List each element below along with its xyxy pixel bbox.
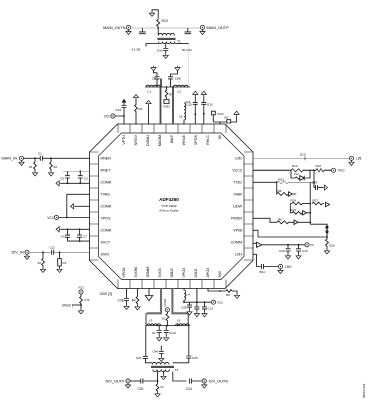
svg-text:RNET: RNET xyxy=(101,168,112,172)
capacitor C38 xyxy=(124,289,129,305)
buffer arrow after R8 xyxy=(288,192,296,196)
svg-text:51: 51 xyxy=(161,385,165,389)
inductor L4 xyxy=(184,289,186,303)
svg-text:VDD [3]: VDD [3] xyxy=(100,292,113,296)
svg-text:URUC [: URUC [ xyxy=(62,304,73,308)
inductor L1 xyxy=(146,85,160,87)
resistor R12 xyxy=(291,169,303,172)
wire DIV_OUTP to C30 xyxy=(130,380,140,382)
ground under C12 xyxy=(194,312,199,317)
ground under C6 xyxy=(159,357,164,362)
connector DIV_OUTN xyxy=(202,379,206,383)
svg-text:R8: R8 xyxy=(278,189,282,193)
ground under C45 xyxy=(296,254,301,259)
capacitor C29 xyxy=(286,245,291,254)
wire pin COMM with buffer xyxy=(253,243,305,245)
connector TP1 xyxy=(305,243,309,247)
svg-text:VCC: VCC xyxy=(47,216,54,220)
capacitor C25 series xyxy=(173,356,192,363)
chip U1 bottom pad row xyxy=(118,280,226,289)
capacitor C30 series xyxy=(141,379,158,384)
wire RF trace A xyxy=(160,87,162,124)
capacitor C5 xyxy=(65,171,70,183)
svg-text:VDD: VDD xyxy=(163,105,170,109)
wire DIV_IN to pin9 xyxy=(29,251,89,253)
connector MAIN_IN xyxy=(19,156,23,160)
inductor L8 xyxy=(184,103,186,124)
svg-text:C25: C25 xyxy=(192,356,198,360)
svg-text:LIDW: LIDW xyxy=(233,204,243,208)
wire T1 secondary right stub xyxy=(175,43,189,45)
wire pin4 to loop filter xyxy=(67,194,90,217)
resistor R7 center tap xyxy=(165,87,168,99)
wire VCC to pad1 xyxy=(115,116,124,124)
svg-text:R6: R6 xyxy=(278,217,282,221)
chip U1 outer outline xyxy=(90,124,254,289)
capacitor C14 series xyxy=(261,264,278,269)
resistor R2b shunt xyxy=(50,158,53,171)
svg-text:50 C42: 50 C42 xyxy=(182,48,192,52)
svg-text:MAIN_OUTN: MAIN_OUTN xyxy=(103,26,126,30)
ground under C10 xyxy=(164,336,169,341)
svg-text:COMR: COMR xyxy=(101,204,112,208)
svg-text:FL2: FL2 xyxy=(294,172,299,176)
VDD arrow pad3 xyxy=(146,101,151,106)
inductor L2 xyxy=(174,85,188,87)
connector MAIN_OUTP xyxy=(200,25,204,29)
svg-text:G15: G15 xyxy=(207,102,213,106)
svg-text:IW: IW xyxy=(218,134,222,139)
connector VCC pullup LRUC xyxy=(79,290,83,294)
svg-text:L8: L8 xyxy=(179,115,183,119)
wire pin LOH down xyxy=(253,254,261,266)
ground left arrow pin5 xyxy=(71,204,76,209)
capacitor C20 shunt xyxy=(139,28,146,34)
transformer T1 xyxy=(158,33,182,43)
svg-text:L4: L4 xyxy=(187,293,191,297)
resistor R5 xyxy=(226,290,232,293)
svg-text:VPOS: VPOS xyxy=(194,134,198,145)
svg-text:B10: B10 xyxy=(330,244,336,248)
wire pin VCC2 xyxy=(253,169,331,171)
svg-text:B2: B2 xyxy=(225,116,229,120)
wire T2 bottom right xyxy=(173,372,187,382)
wire pin8 loop filter return xyxy=(68,240,90,242)
ground under MAIN_IN xyxy=(19,160,24,165)
wire pin LOD to LD connector xyxy=(253,157,349,159)
wire pin TX01 xyxy=(253,181,277,183)
ground under C43 xyxy=(163,54,168,59)
ground under DIV_IN xyxy=(24,254,29,259)
VDD arrow with resistor R3 pad2 xyxy=(133,95,138,100)
capacitor C4 loop filter xyxy=(65,229,70,241)
svg-text:4.7k: 4.7k xyxy=(84,298,90,302)
svg-text:VCC: VCC xyxy=(338,169,345,173)
ground above C19 xyxy=(175,66,180,71)
inductor L3 xyxy=(147,324,161,326)
pin labels top side xyxy=(122,134,222,146)
pin labels right side xyxy=(231,156,243,256)
svg-text:VPOA: VPOA xyxy=(122,267,126,278)
svg-text:R14: R14 xyxy=(291,199,297,203)
wire node to C34 xyxy=(314,170,315,187)
pin labels bottom side xyxy=(122,267,222,278)
svg-text:C13: C13 xyxy=(208,307,214,311)
svg-text:COMM: COMM xyxy=(231,240,242,244)
svg-text:DIV_OUTP: DIV_OUTP xyxy=(106,379,125,383)
svg-text:TVAS: TVAS xyxy=(101,192,111,196)
capacitor C44 decoupling pad1 xyxy=(122,103,127,117)
svg-text:VO3: VO3 xyxy=(217,112,223,116)
ground under DIV_OUTP xyxy=(125,383,130,388)
capacitor C21b shunt xyxy=(185,28,192,34)
wire RF trace D xyxy=(172,289,188,314)
chip U1 right pad column xyxy=(244,152,253,260)
svg-text:VCC: VCC xyxy=(104,114,111,118)
svg-text:C1: C1 xyxy=(152,331,156,335)
ground under C38 xyxy=(124,305,129,310)
svg-text:WHLE: WHLE xyxy=(182,134,186,145)
svg-text:C7: C7 xyxy=(83,234,87,238)
svg-text:4:1 5B: 4:1 5B xyxy=(132,48,141,52)
capacitor C28 xyxy=(187,302,192,310)
dotted return wire xyxy=(188,44,190,87)
resistor R51 shunt xyxy=(156,381,159,392)
ground under C29 xyxy=(285,254,290,259)
capacitor C9 xyxy=(157,326,162,337)
capacitor C12 xyxy=(194,302,199,312)
svg-text:DGMU: DGMU xyxy=(146,135,150,146)
svg-text:RNEN: RNEN xyxy=(101,156,112,160)
svg-text:YPOS: YPOS xyxy=(101,216,112,220)
wire pin5 xyxy=(76,205,90,207)
svg-text:L2: L2 xyxy=(178,89,182,93)
resistor R19 under VVCO xyxy=(166,312,169,326)
svg-text:SVIN: SVIN xyxy=(101,252,110,256)
wire pin3 with side ground xyxy=(61,182,90,184)
svg-text:Z2: Z2 xyxy=(54,165,58,169)
svg-text:ADF4350: ADF4350 xyxy=(159,197,179,202)
svg-text:3VO3: 3VO3 xyxy=(158,268,162,277)
jumper P2 xyxy=(326,224,328,230)
svg-text:VVCO: VVCO xyxy=(163,298,167,307)
capacitor C43 on T1 center tap xyxy=(163,44,168,54)
resistor R2 top right xyxy=(220,116,237,124)
T1 secondary label xyxy=(182,48,192,52)
ground under R20 xyxy=(40,268,45,273)
resistor R8 branch xyxy=(277,182,289,195)
svg-text:LOH: LOH xyxy=(235,252,243,256)
svg-text:3VOM: 3VOM xyxy=(134,267,138,277)
ground under R21 xyxy=(324,249,329,254)
capacitor C7 loop filter xyxy=(77,229,82,241)
svg-text:(Not to Scale): (Not to Scale) xyxy=(160,209,179,213)
ground at top of R10 xyxy=(149,11,154,16)
wire rail left down xyxy=(145,326,147,356)
connector VCC bottom xyxy=(211,300,215,304)
svg-text:C24: C24 xyxy=(186,387,192,391)
svg-text:B14: B14 xyxy=(260,270,266,274)
svg-text:08510-029: 08510-029 xyxy=(362,383,366,398)
svg-text:C2: C2 xyxy=(84,177,88,181)
svg-text:TX01: TX01 xyxy=(233,180,242,184)
connector VCC right xyxy=(331,168,335,172)
wire T1 secondary left stub xyxy=(146,44,159,47)
VDD arrow feed pin6 xyxy=(193,91,198,96)
wire T2 bottom left xyxy=(157,372,159,382)
figure number xyxy=(362,383,366,398)
wire VCC rail bottom xyxy=(184,301,211,303)
ground above C18 xyxy=(151,66,156,71)
ground under R5 xyxy=(234,294,239,299)
svg-text:MAIN_IN: MAIN_IN xyxy=(2,157,18,161)
svg-text:IMLP: IMLP xyxy=(170,134,174,143)
svg-text:20: 20 xyxy=(38,261,42,265)
svg-text:C15: C15 xyxy=(186,102,192,106)
junction dots on rail xyxy=(160,86,174,88)
ground left arrow pin3 xyxy=(56,181,61,186)
ground under C13 xyxy=(202,312,207,317)
svg-text:C29: C29 xyxy=(279,249,285,253)
capacitor C10 xyxy=(164,326,169,337)
svg-text:R5: R5 xyxy=(226,293,230,297)
svg-text:C4: C4 xyxy=(61,234,65,238)
ground under MAIN_OUTN xyxy=(128,30,130,32)
resistor R10 xyxy=(157,19,160,35)
svg-text:C28: C28 xyxy=(181,305,187,309)
svg-text:L3: L3 xyxy=(149,319,153,323)
wire vertical bus x310 xyxy=(309,182,311,224)
test point box VOS xyxy=(212,111,227,122)
wire pin7 xyxy=(61,228,90,230)
svg-text:VU: VU xyxy=(310,243,314,247)
capacitor C45 xyxy=(296,245,301,254)
capacitor C24 series xyxy=(189,379,202,384)
VDD arrow feed pin7 xyxy=(201,91,206,96)
ground under LDH xyxy=(278,269,283,274)
svg-text:MAOM: MAOM xyxy=(158,135,162,146)
svg-text:TOP VIEW: TOP VIEW xyxy=(161,204,176,208)
wire VCO supply rail xyxy=(145,86,190,88)
chip U1 inner outline xyxy=(99,133,245,280)
connector LDH xyxy=(278,264,282,268)
svg-text:DIV_OUTN: DIV_OUTN xyxy=(209,379,228,383)
svg-text:L1: L1 xyxy=(148,89,152,93)
svg-text:APO3: APO3 xyxy=(206,268,210,278)
svg-text:10: 10 xyxy=(162,317,166,321)
ground right arrow after C34 xyxy=(323,185,328,190)
svg-text:SVCT: SVCT xyxy=(101,240,111,244)
buffer U2 xyxy=(257,242,262,247)
svg-text:LDH: LDH xyxy=(285,265,292,269)
svg-text:L5: L5 xyxy=(177,319,181,323)
ground under R2b xyxy=(48,171,53,176)
svg-text:NRGV: NRGV xyxy=(134,134,138,145)
svg-text:P4: P4 xyxy=(63,261,67,265)
ground under MAIN_OUTP xyxy=(202,30,204,32)
wire thick stub above rail xyxy=(160,79,162,88)
resistor R21 xyxy=(326,237,329,249)
svg-text:VP08: VP08 xyxy=(233,228,242,232)
wire RF trace C xyxy=(147,289,162,314)
ground under LD xyxy=(349,160,354,165)
connector LD xyxy=(349,156,353,160)
svg-text:R17: R17 xyxy=(313,199,319,203)
connector VCC left xyxy=(54,215,58,219)
connector VVCO xyxy=(165,308,169,312)
ground T2 center tap xyxy=(163,372,165,375)
svg-text:C5: C5 xyxy=(60,177,64,181)
svg-text:3IW: 3IW xyxy=(218,271,222,278)
wire pin PWDN to R6 xyxy=(253,218,277,222)
ground under R51 xyxy=(155,392,160,397)
svg-text:C8: C8 xyxy=(152,77,156,81)
resistor R15 xyxy=(290,204,302,215)
svg-text:C38: C38 xyxy=(118,299,124,303)
resistor R20 shunt xyxy=(42,252,45,267)
svg-text:R13: R13 xyxy=(279,178,285,182)
wire RF trace B xyxy=(172,87,174,124)
resistor R24 pullup xyxy=(80,294,83,305)
ground pad3 bottom xyxy=(148,289,150,296)
wire bus down to dark rail xyxy=(310,224,327,237)
supply arrow above C44 xyxy=(122,99,127,103)
resistor R4 xyxy=(136,289,139,306)
svg-text:C15: C15 xyxy=(302,249,308,253)
capacitor C21 series xyxy=(143,356,152,363)
svg-text:COMR: COMR xyxy=(101,228,112,232)
wire VCC to pin6 xyxy=(59,217,90,219)
svg-text:(C10: (C10 xyxy=(169,331,176,335)
svg-text:LOD: LOD xyxy=(235,156,243,160)
svg-text:T1: T1 xyxy=(177,40,181,44)
wire pad7 to rail xyxy=(196,289,198,303)
svg-text:R3: R3 xyxy=(139,107,143,111)
wire rail right down xyxy=(188,326,190,356)
ground under C9 xyxy=(157,336,162,341)
ground under URUC node xyxy=(80,305,82,309)
svg-text:VCC2: VCC2 xyxy=(232,168,242,172)
wire main out row xyxy=(131,27,201,29)
resistor R6 xyxy=(277,221,294,224)
inductor L5 xyxy=(176,324,190,326)
ground under P4 xyxy=(57,268,62,273)
ground under DIV_OUTN xyxy=(202,383,207,388)
ground under R4 xyxy=(135,305,140,310)
wire dark rail pin VP08 xyxy=(253,230,327,237)
capacitor C2 xyxy=(78,171,83,183)
svg-text:T2: T2 xyxy=(175,368,179,372)
svg-text:C46: C46 xyxy=(152,350,158,354)
VDD terminal box xyxy=(164,100,169,104)
wire pin2 faint xyxy=(63,170,90,172)
svg-text:C1: C1 xyxy=(38,152,42,156)
node main out xyxy=(157,27,159,29)
resistor R16 xyxy=(316,169,324,172)
svg-text:D10: D10 xyxy=(300,153,306,157)
svg-text:3MLE: 3MLE xyxy=(170,268,174,278)
svg-text:C30: C30 xyxy=(138,387,144,391)
svg-text:PWDN: PWDN xyxy=(231,216,242,220)
capacitor C15 xyxy=(201,96,206,124)
svg-text:R15: R15 xyxy=(291,208,297,212)
svg-text:B4: B4 xyxy=(132,299,136,303)
svg-text:C43: C43 xyxy=(157,49,163,53)
chip U1 part name text xyxy=(159,197,179,213)
svg-text:L28: L28 xyxy=(356,157,362,161)
wire divider output rail xyxy=(146,325,190,327)
svg-text:RHLC: RHLC xyxy=(206,135,210,145)
ground left arrow pin7 xyxy=(56,227,61,232)
capacitor C11 series xyxy=(52,250,54,255)
buffer arrow after R15 xyxy=(303,211,311,215)
T1 value label xyxy=(132,48,141,52)
svg-text:C11: C11 xyxy=(50,246,56,250)
diode D2 under R12 xyxy=(291,170,310,180)
svg-text:VPTU: VPTU xyxy=(122,135,126,145)
pin labels left side xyxy=(101,156,112,256)
node URUC xyxy=(80,304,82,306)
resistor R13 xyxy=(277,181,314,184)
svg-text:VCC: VCC xyxy=(217,301,223,305)
svg-text:VPO3: VPO3 xyxy=(182,268,186,278)
buffer arrow after R17 xyxy=(326,202,330,206)
svg-text:C88: C88 xyxy=(175,77,181,81)
VDD arrow near R2 xyxy=(234,111,239,116)
wire pad8 pad9 R5 xyxy=(208,289,237,294)
inductor P4 shunt xyxy=(58,252,62,267)
capacitor C34 xyxy=(316,185,323,190)
svg-text:Z1: Z1 xyxy=(29,165,33,169)
connector DIV_OUTP xyxy=(126,379,130,383)
svg-text:VCC: VCC xyxy=(78,286,84,290)
resistor R14 xyxy=(290,202,302,205)
ground under R1 xyxy=(32,171,37,176)
buffer arrow after R6 xyxy=(294,220,310,224)
capacitor C1 series xyxy=(40,156,42,161)
capacitor C18 xyxy=(154,71,160,87)
svg-text:COMR: COMR xyxy=(101,180,112,184)
transformer T2 xyxy=(151,362,179,371)
capacitor C19 xyxy=(168,71,178,87)
wire ground to R10 xyxy=(152,10,158,19)
junction VCC2 node xyxy=(313,169,315,171)
resistor R17 xyxy=(312,202,324,205)
chip U1 left pad column xyxy=(90,152,99,260)
svg-text:DIV_IN: DIV_IN xyxy=(12,251,24,255)
svg-text:YA80: YA80 xyxy=(233,192,242,196)
connector MAIN_OUTN xyxy=(126,25,130,29)
svg-text:3DMM: 3DMM xyxy=(146,267,150,278)
svg-text:R10: R10 xyxy=(162,19,168,23)
chip U1 top pad row xyxy=(118,124,226,133)
connector VCC top left xyxy=(111,114,115,118)
svg-text:C44: C44 xyxy=(115,108,121,112)
svg-text:3ULE: 3ULE xyxy=(194,268,198,278)
svg-text:MAIN_OUTP: MAIN_OUTP xyxy=(207,26,230,30)
resistor R1 shunt xyxy=(34,158,37,171)
net label VDD bottom xyxy=(100,292,113,296)
capacitor C16 label xyxy=(185,100,191,104)
capacitor C13 xyxy=(202,302,207,312)
svg-text:R12: R12 xyxy=(292,164,298,168)
ground under C28 xyxy=(187,310,192,315)
wire MAIN_IN to pad1 xyxy=(24,157,90,159)
wire vertical join R14 R15 xyxy=(302,203,310,205)
capacitor C6 xyxy=(159,346,164,357)
svg-text:R16: R16 xyxy=(316,164,322,168)
svg-text:C21: C21 xyxy=(136,356,142,360)
